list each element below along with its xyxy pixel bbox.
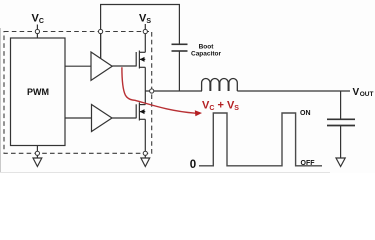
terminal top rail crossing xyxy=(99,29,103,33)
inductor L1 xyxy=(202,79,238,92)
wire upper driver output to gate xyxy=(112,65,136,67)
transistor Q2 body arrow xyxy=(140,109,145,114)
PWM block U1 xyxy=(11,38,66,146)
wire lower driver output to gate xyxy=(112,117,136,119)
svg-text:VC: VC xyxy=(32,13,44,26)
PWM controller dashed boundary box xyxy=(4,32,152,154)
annotation arrowhead xyxy=(195,110,202,116)
wire inductor to output xyxy=(237,90,350,92)
wire driver supply feed xyxy=(100,34,102,59)
transistor Q2 lower MOSFET xyxy=(136,103,145,121)
svg-text:Capacitor: Capacitor xyxy=(191,50,221,57)
svg-text:VS: VS xyxy=(139,13,151,26)
op-amp lower gate driver xyxy=(92,105,113,132)
wire PWM to lower driver xyxy=(65,117,92,119)
wire PWM ground stub xyxy=(36,146,38,159)
wire PWM to upper driver xyxy=(65,65,91,67)
svg-text:ON: ON xyxy=(300,110,311,117)
wire lower FET source to ground xyxy=(144,119,146,158)
wire switch node horizontal xyxy=(145,90,202,92)
transistor Q1 upper MOSFET xyxy=(136,51,145,69)
waveform Vc+Vs square wave xyxy=(199,113,322,166)
svg-text:VC + VS: VC + VS xyxy=(202,100,239,113)
capacitor output (plates) xyxy=(327,118,355,120)
capacitor boot (plates) xyxy=(172,43,188,45)
terminal PWM ground at box edge xyxy=(35,151,39,155)
terminal Vs xyxy=(143,29,147,33)
wire upper FET source to switch node xyxy=(144,67,146,104)
svg-text:0: 0 xyxy=(190,159,196,171)
svg-text:Boot: Boot xyxy=(199,43,215,50)
ground PWM xyxy=(33,158,42,167)
wire Vc stub xyxy=(36,25,38,39)
wire top supply rail xyxy=(101,5,180,59)
svg-text:OUT: OUT xyxy=(360,91,374,98)
wire boot cap bottom lead xyxy=(178,51,180,91)
terminal switch node at box edge xyxy=(150,89,154,93)
svg-text:OFF: OFF xyxy=(301,160,316,167)
annotation arrow (red curve) xyxy=(122,67,196,113)
terminal Vc xyxy=(35,29,39,33)
wire Vs stub / upper FET drain xyxy=(144,24,146,52)
svg-text:V: V xyxy=(353,87,360,98)
svg-text:PWM: PWM xyxy=(27,87,49,97)
op-amp upper gate driver xyxy=(91,52,112,80)
wire output cap top lead xyxy=(340,91,342,119)
wire output cap bottom lead xyxy=(340,126,342,159)
terminal lower source at box edge xyxy=(143,151,147,155)
ground output xyxy=(336,158,345,167)
transistor Q1 body arrow xyxy=(140,57,145,62)
ground lower FET source xyxy=(141,158,150,167)
